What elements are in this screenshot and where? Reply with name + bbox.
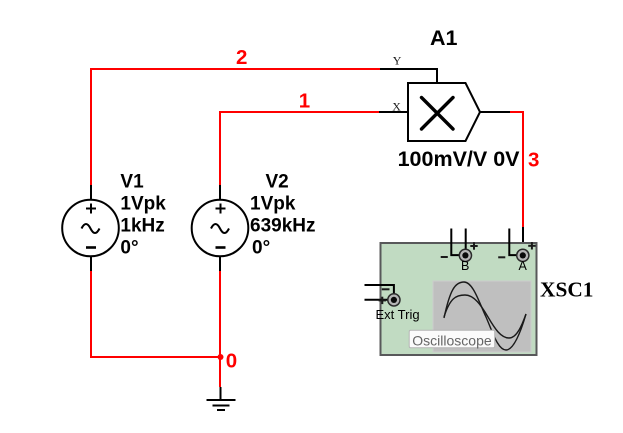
svg-text:1: 1 bbox=[299, 90, 310, 113]
svg-text:0°: 0° bbox=[252, 238, 270, 259]
svg-text:3: 3 bbox=[528, 149, 539, 172]
svg-text:V1: V1 bbox=[120, 172, 144, 193]
svg-text:0: 0 bbox=[226, 350, 237, 373]
svg-text:Y: Y bbox=[393, 54, 402, 68]
svg-text:X: X bbox=[392, 100, 401, 114]
svg-text:1Vpk: 1Vpk bbox=[250, 194, 296, 215]
svg-text:100mV/V 0V: 100mV/V 0V bbox=[398, 147, 521, 171]
svg-text:Oscilloscope: Oscilloscope bbox=[412, 332, 492, 348]
svg-text:1kHz: 1kHz bbox=[120, 216, 164, 237]
svg-text:XSC1: XSC1 bbox=[540, 278, 594, 302]
svg-text:Ext Trig: Ext Trig bbox=[376, 307, 420, 322]
svg-text:A: A bbox=[519, 259, 528, 273]
svg-text:V2: V2 bbox=[266, 172, 289, 193]
svg-text:A1: A1 bbox=[430, 26, 458, 50]
svg-text:1Vpk: 1Vpk bbox=[120, 194, 166, 215]
svg-text:639kHz: 639kHz bbox=[250, 216, 316, 237]
svg-text:B: B bbox=[461, 259, 469, 273]
svg-text:2: 2 bbox=[236, 46, 247, 69]
svg-text:0°: 0° bbox=[120, 238, 138, 259]
